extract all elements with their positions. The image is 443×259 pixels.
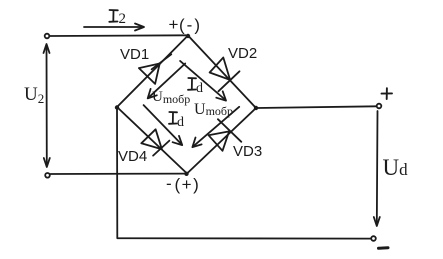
svg-text:(-): (-)	[179, 16, 202, 35]
svg-text:(+): (+)	[175, 175, 201, 194]
svg-text:Ud: Ud	[383, 155, 409, 180]
svg-text:VD1: VD1	[120, 46, 149, 63]
svg-text:VD4: VD4	[118, 148, 147, 165]
svg-text:2: 2	[119, 11, 127, 27]
svg-text:Umoбp: Umoбp	[152, 89, 190, 106]
svg-text:d: d	[177, 115, 184, 130]
svg-text:-: -	[166, 174, 172, 193]
svg-text:VD2: VD2	[228, 45, 257, 62]
svg-text:d: d	[196, 81, 203, 96]
svg-text:U2: U2	[24, 84, 44, 106]
svg-text:VD3: VD3	[233, 143, 262, 160]
svg-text:+: +	[169, 15, 179, 34]
svg-text:Umoбp: Umoбp	[194, 101, 233, 118]
